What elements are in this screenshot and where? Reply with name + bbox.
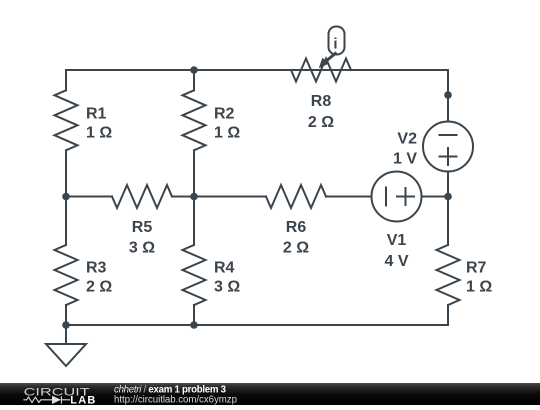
svg-text:R2: R2 — [214, 105, 235, 122]
wire right rail middle to R7 — [447, 197, 449, 246]
wire V2 bottom to middle junction — [447, 172, 449, 197]
voltage source V2 body — [423, 122, 473, 172]
svg-text:2 Ω: 2 Ω — [308, 114, 334, 131]
node junction second rail bottom — [190, 321, 198, 329]
resistor R6 — [266, 185, 326, 208]
current probe body — [329, 27, 345, 55]
V1 minus terminal bar — [385, 188, 387, 206]
svg-text:1 V: 1 V — [393, 150, 417, 167]
svg-text:3 Ω: 3 Ω — [129, 240, 155, 257]
node junction left bottom — [62, 321, 70, 329]
resistor R2 — [183, 90, 206, 150]
resistor R4 — [183, 245, 206, 305]
V1 plus sign — [397, 188, 414, 205]
footer logo LAB — [70, 395, 96, 407]
svg-text:1 Ω: 1 Ω — [86, 125, 112, 142]
wire R7 to bottom row — [447, 305, 449, 325]
svg-text:R4: R4 — [214, 259, 235, 276]
wire second rail to R6 — [194, 196, 266, 198]
footer logo resistor-diode line art — [23, 396, 70, 403]
svg-text:3 Ω: 3 Ω — [214, 279, 240, 296]
wire left rail middle to R3 — [65, 197, 67, 246]
node junction second rail middle — [190, 193, 198, 201]
current probe label i — [333, 36, 337, 53]
node junction top R2 — [190, 66, 198, 74]
footer bar — [0, 383, 540, 405]
wire left rail R3 to bottom row — [65, 305, 67, 325]
wire R6 to V1 — [326, 196, 372, 198]
wire second rail R4 to bottom row — [193, 305, 195, 325]
node junction right middle — [444, 193, 452, 201]
label R1 — [86, 105, 112, 141]
svg-text:2 Ω: 2 Ω — [86, 279, 112, 296]
footer title line — [114, 384, 237, 405]
label R4 — [214, 259, 240, 295]
ground — [46, 325, 86, 366]
wire second rail middle to R4 — [193, 197, 195, 246]
resistor R8 — [291, 59, 351, 82]
wire middle row left to R5 — [66, 196, 112, 198]
label R6 — [283, 219, 309, 256]
resistor R3 — [55, 245, 78, 305]
svg-text:R1: R1 — [86, 105, 107, 122]
wire bottom row — [66, 324, 448, 326]
wire right rail to V2 top — [447, 70, 449, 122]
resistor R1 — [55, 90, 78, 150]
resistor R5 — [112, 185, 172, 208]
svg-text:R7: R7 — [466, 259, 487, 276]
svg-text:V2: V2 — [397, 131, 417, 148]
svg-text:R8: R8 — [311, 93, 332, 110]
voltage source V1 body — [372, 172, 422, 222]
V2 minus sign — [440, 134, 457, 136]
svg-text:2 Ω: 2 Ω — [283, 240, 309, 257]
resistor R7 — [437, 245, 460, 305]
V2 plus sign — [440, 148, 457, 165]
svg-text:R5: R5 — [132, 219, 153, 236]
svg-text:R6: R6 — [286, 219, 307, 236]
svg-text:4 V: 4 V — [384, 253, 408, 270]
label R3 — [86, 259, 112, 295]
label R7 — [466, 259, 492, 295]
footer logo CIRCUIT — [24, 386, 91, 398]
wire second rail top to R2 — [193, 70, 195, 90]
label V2 — [393, 131, 417, 168]
wire R8 to right corner — [351, 69, 448, 71]
current probe arrow — [319, 53, 337, 69]
label R2 — [214, 105, 240, 141]
label V1 — [384, 232, 408, 270]
wire V1 to right rail — [422, 196, 449, 198]
wire left rail upper lead to R1 — [65, 70, 67, 90]
svg-text:LAB: LAB — [70, 395, 96, 406]
node junction left middle — [62, 193, 70, 201]
svg-text:http://circuitlab.com/cx6ymzp: http://circuitlab.com/cx6ymzp — [114, 394, 237, 405]
node V2 top terminal — [444, 91, 452, 99]
label R8 — [308, 93, 334, 131]
wire second rail R2 to middle row — [193, 150, 195, 196]
svg-text:R3: R3 — [86, 259, 107, 276]
wire top row — [66, 69, 448, 71]
svg-text:1 Ω: 1 Ω — [466, 279, 492, 296]
svg-text:V1: V1 — [387, 232, 407, 249]
label R5 — [129, 219, 155, 256]
wire left rail R1 to middle row — [65, 150, 67, 196]
wire top row R8 left lead — [194, 69, 291, 71]
svg-text:i: i — [333, 36, 337, 53]
svg-text:1 Ω: 1 Ω — [214, 125, 240, 142]
wire R5 to second rail — [172, 196, 194, 198]
